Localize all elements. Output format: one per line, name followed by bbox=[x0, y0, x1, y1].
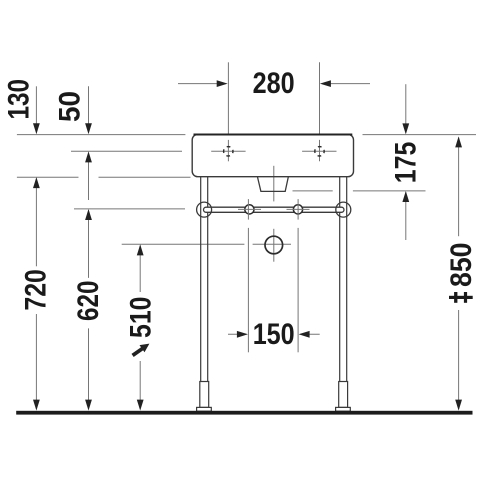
svg-text:175: 175 bbox=[390, 142, 423, 184]
basin top edge (thicker) bbox=[194, 134, 353, 136]
wire: rail hole right extension down bbox=[297, 228, 299, 352]
washbasin body outline bbox=[192, 134, 353, 381]
arrow: 510 bottom (points down) bbox=[137, 400, 144, 411]
rail bracket circle right bbox=[336, 202, 351, 217]
wire: 280 right leader bbox=[322, 83, 370, 85]
svg-text:130: 130 bbox=[3, 79, 36, 120]
panel hole circle bbox=[265, 236, 283, 254]
wire: drain bottom extension right b bbox=[353, 190, 426, 192]
arrow: 175 bottom (points up) bbox=[402, 191, 409, 202]
plus-minus symbol of 850 (rotated, drawn) bbox=[449, 292, 473, 303]
wire: dim 175 lower leader bbox=[405, 192, 407, 240]
arrowheads bbox=[33, 80, 462, 410]
wire: basin top extension left bbox=[17, 134, 186, 136]
arrow: 50 top (points down) bbox=[85, 123, 92, 134]
arrow: 850 bottom (points down) bbox=[455, 400, 462, 411]
left leg right line bbox=[207, 177, 209, 382]
wire: rail hole right cross horizontal bbox=[287, 208, 310, 210]
wire: dim 510 line lower part bbox=[139, 361, 141, 409]
rail hole left circle bbox=[245, 205, 254, 214]
adjustable foot tube right bbox=[339, 382, 348, 408]
wire: rail hole left cross horizontal bbox=[238, 208, 261, 210]
right leg left line bbox=[339, 177, 341, 382]
foot plate right bbox=[336, 407, 351, 411]
wire: 280 left leader bbox=[178, 83, 226, 85]
svg-text:850: 850 bbox=[445, 243, 478, 288]
right leg right line bbox=[346, 177, 348, 382]
wire: dim 130 upper leader bbox=[35, 86, 37, 132]
svg-text:720: 720 bbox=[20, 269, 53, 311]
wire: faucet cross left horizontal bbox=[211, 150, 245, 152]
arrow: 850 top (points up) bbox=[455, 136, 462, 147]
dimension extension and leader lines (thin gray) bbox=[17, 62, 476, 409]
svg-text:510: 510 bbox=[124, 297, 157, 339]
wire: faucet cross right horizontal bbox=[302, 150, 336, 152]
left leg left line bbox=[200, 177, 202, 382]
wire: drain centreline bbox=[273, 166, 275, 202]
rail bracket circle left bbox=[197, 202, 212, 217]
wire: dim 720 line lower part bbox=[35, 314, 37, 409]
wire: basin bottom extension left b bbox=[99, 176, 191, 178]
foot plate left bbox=[197, 407, 212, 411]
arrow: 130 top (points down) bbox=[33, 123, 40, 134]
svg-text:620: 620 bbox=[72, 281, 105, 322]
wire: hole level extension left a bbox=[122, 243, 245, 245]
direction arrow next to 510 (points north-east) bbox=[133, 344, 150, 356]
wire: dim 50 lower leader bbox=[88, 153, 90, 201]
arrow: 280 right (points left) bbox=[320, 80, 331, 87]
arrow: 50 bottom (points up) bbox=[85, 151, 92, 162]
arrow: 510 top (points up) bbox=[137, 244, 144, 255]
wire: rail hole left cross vertical bbox=[247, 199, 249, 220]
wire: faucet cross left vertical bbox=[227, 140, 229, 161]
wire: dim 50 upper leader bbox=[88, 86, 90, 132]
wire: extension line right faucet hole up bbox=[319, 62, 321, 134]
wire: dim 720 line upper part bbox=[35, 179, 37, 267]
arrow: 280 left (points right) bbox=[217, 80, 228, 87]
svg-text:280: 280 bbox=[253, 67, 295, 100]
wire: faucet centre level extension left bbox=[71, 150, 182, 152]
drain recess trapezoid bbox=[258, 177, 289, 191]
wire: dim 850 line lower part bbox=[458, 310, 460, 409]
wire: extension line left faucet hole up bbox=[227, 62, 229, 134]
wire: panel hole centreline vertical bbox=[273, 229, 275, 262]
arrow: 130 bottom / 720 top (points up) bbox=[33, 177, 40, 188]
wire: dim 620 line lower part bbox=[88, 328, 90, 408]
wire: rail hole right cross vertical bbox=[297, 199, 299, 220]
faucet hole dashed circle right bbox=[315, 147, 324, 156]
wire: rail hole left extension down bbox=[247, 228, 249, 352]
arrow: 620 top (points up) bbox=[85, 209, 92, 220]
adjustable foot tube left bbox=[200, 382, 209, 408]
rail hole right circle bbox=[293, 205, 302, 214]
arrow: 150 left (points right) bbox=[237, 331, 248, 338]
arrow: 150 right (points left) bbox=[299, 331, 310, 338]
wire: faucet cross right vertical bbox=[319, 140, 321, 161]
floor line bbox=[16, 411, 472, 415]
svg-text:150: 150 bbox=[253, 318, 295, 351]
basin: rounded rectangle front view bbox=[192, 134, 353, 176]
faucet hole dashed circle left bbox=[224, 147, 233, 156]
arrow: 175 top (points down) bbox=[402, 123, 409, 134]
wire: dim 850 line upper part bbox=[458, 138, 460, 237]
svg-text:50: 50 bbox=[54, 91, 87, 122]
wire: dim 150 right leader bbox=[300, 333, 319, 335]
wire: drain bottom extension right a bbox=[293, 190, 333, 192]
wire: rail level extension left bbox=[74, 208, 185, 210]
wire: dim 150 left leader bbox=[228, 333, 247, 335]
wire: basin bottom extension left a bbox=[17, 176, 79, 178]
wire: dim 175 upper leader bbox=[405, 84, 407, 132]
wire: hole level extension left b bbox=[253, 243, 291, 245]
arrow: 720 bottom (points down) bbox=[33, 400, 40, 411]
wire: basin top extension right bbox=[363, 134, 477, 136]
wire: dim 510 line upper part bbox=[139, 246, 141, 292]
arrow: 620 bottom (points down) bbox=[85, 400, 92, 411]
towel rail bar (white filled, drawn over legs) bbox=[204, 207, 345, 212]
wire: dim 620 line upper part bbox=[88, 210, 90, 278]
